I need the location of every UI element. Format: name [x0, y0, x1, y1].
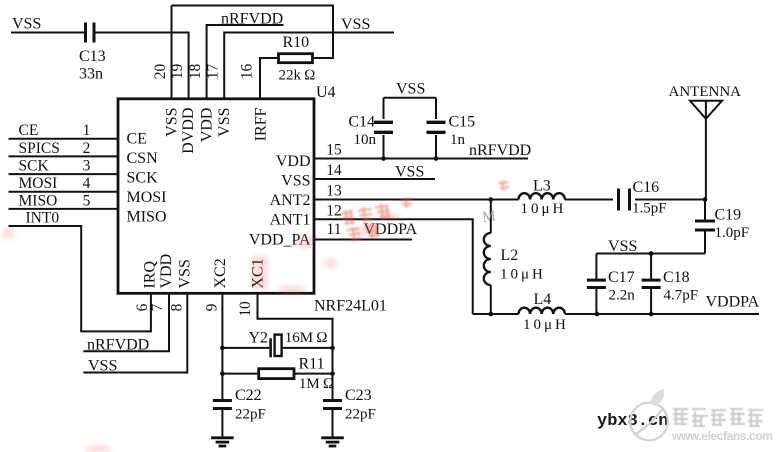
- svg-text:ANT1: ANT1: [270, 211, 311, 228]
- svg-text:VSS: VSS: [88, 357, 117, 374]
- wire pin 7 VDD to nRFVDD: [83, 293, 169, 351]
- svg-text:DVDD: DVDD: [180, 108, 197, 154]
- wire C13 to pin 19 DVDD: [96, 33, 189, 99]
- svg-text:1: 1: [83, 122, 91, 139]
- ground (C22): [211, 436, 234, 439]
- resistor R11: [259, 369, 294, 379]
- inductor L2: [490, 200, 492, 234]
- wire Y2 to XC1: [283, 347, 333, 349]
- svg-text:VSS: VSS: [216, 108, 233, 137]
- svg-text:1.5pF: 1.5pF: [632, 201, 667, 217]
- wire pin 15 VDD to nRFVDD: [314, 158, 528, 160]
- wire MOSI to pin 4: [9, 191, 119, 193]
- svg-text:ANT2: ANT2: [270, 192, 311, 209]
- capacitor C22: [213, 399, 232, 402]
- svg-text:C16: C16: [633, 179, 660, 196]
- junction C18 bottom: [649, 312, 654, 317]
- svg-text:14: 14: [326, 162, 342, 179]
- IC U4 NRF24L01 body: [118, 99, 314, 293]
- junction C18 top: [649, 251, 654, 256]
- svg-text:VDD: VDD: [199, 108, 216, 143]
- svg-text:CE: CE: [127, 131, 147, 148]
- crystal Y2: [269, 338, 272, 357]
- junction C17 bottom: [595, 312, 600, 317]
- wire VSS rail above C14 C15: [384, 97, 437, 99]
- svg-text:VDDPA: VDDPA: [706, 294, 760, 311]
- svg-text:C15: C15: [449, 114, 476, 131]
- svg-text:MISO: MISO: [127, 209, 167, 226]
- svg-text:SPICS: SPICS: [19, 140, 60, 157]
- svg-text:VSS: VSS: [164, 108, 181, 137]
- svg-text:XC2: XC2: [212, 258, 229, 288]
- svg-text:MOSI: MOSI: [19, 175, 58, 192]
- svg-text:C19: C19: [715, 207, 742, 224]
- wire pin 20 VSS riser: [171, 6, 173, 99]
- svg-text:MISO: MISO: [19, 192, 58, 209]
- capacitor C15: [435, 98, 437, 119]
- wire pin 9 XC2 down: [221, 293, 223, 400]
- junction XC2-Y2: [220, 346, 225, 351]
- svg-text:VSS: VSS: [177, 259, 194, 288]
- svg-text:10μH: 10μH: [521, 201, 567, 217]
- svg-text:1n: 1n: [450, 132, 466, 148]
- svg-text:R10: R10: [283, 34, 310, 51]
- svg-text:M: M: [481, 208, 496, 226]
- svg-text:12: 12: [326, 202, 342, 219]
- junction C15 bottom: [434, 156, 439, 161]
- svg-text:16M Ω: 16M Ω: [285, 330, 328, 346]
- wire pin 12 ANT1 down: [314, 219, 473, 314]
- capacitor C14: [383, 98, 385, 119]
- svg-text:CE: CE: [19, 122, 39, 139]
- svg-text:4: 4: [83, 175, 91, 192]
- svg-text:13: 13: [326, 183, 342, 200]
- svg-text:ANTENNA: ANTENNA: [669, 84, 742, 100]
- svg-text:9: 9: [203, 303, 220, 311]
- svg-text:11: 11: [327, 221, 342, 238]
- svg-text:L4: L4: [534, 291, 552, 308]
- svg-text:2.2n: 2.2n: [609, 288, 636, 304]
- junction XC2-R11: [220, 371, 225, 376]
- wire pin 13 ANT2 to L3: [314, 199, 519, 201]
- svg-text:U4: U4: [316, 84, 336, 101]
- svg-text:16: 16: [239, 64, 256, 80]
- wire C16 to antenna node: [635, 199, 705, 201]
- wire top VSS rail to R10: [172, 6, 334, 59]
- wire L3 to C16: [565, 199, 613, 201]
- svg-text:VDD: VDD: [158, 254, 175, 289]
- watermark red stamp fragments: [338, 180, 513, 243]
- wire MISO to pin 5: [9, 208, 119, 210]
- svg-text:VDD: VDD: [276, 153, 311, 170]
- wire PA output rail: [473, 313, 519, 315]
- inductor L4: [519, 308, 565, 314]
- svg-text:33n: 33n: [79, 66, 103, 83]
- resistor R10: [279, 54, 313, 63]
- svg-text:10μH: 10μH: [523, 317, 569, 333]
- wire SPICS to pin 2: [9, 155, 119, 157]
- svg-text:VSS: VSS: [395, 164, 424, 181]
- svg-text:IRFF: IRFF: [253, 107, 270, 141]
- wire pin 11 VDD_PA: [314, 239, 412, 241]
- watermark CJK text: [673, 409, 763, 426]
- svg-text:INT0: INT0: [26, 209, 60, 226]
- capacitor C23: [323, 399, 342, 402]
- svg-text:10n: 10n: [354, 132, 377, 148]
- svg-text:8: 8: [169, 303, 186, 311]
- svg-text:10μH: 10μH: [500, 267, 546, 283]
- svg-text:10: 10: [237, 301, 254, 317]
- junction L2 bottom: [488, 312, 493, 317]
- antenna symbol: [690, 101, 722, 119]
- svg-text:C14: C14: [348, 114, 375, 131]
- svg-text:C17: C17: [608, 269, 635, 286]
- wire pin 8 VSS to VSS: [83, 293, 187, 372]
- wire R11 to XC1: [294, 373, 333, 375]
- wire pin 10 XC1 down: [258, 293, 333, 401]
- wire CE to pin 1: [9, 138, 119, 140]
- svg-text:VSS: VSS: [608, 238, 637, 255]
- svg-text:1.0pF: 1.0pF: [715, 225, 750, 241]
- junction C14 bottom: [381, 156, 386, 161]
- wire pin 16 IRFF riser: [260, 58, 279, 99]
- svg-text:VSS: VSS: [396, 81, 425, 98]
- svg-text:nRFVDD: nRFVDD: [469, 142, 531, 159]
- watermark elecfans logo: [630, 389, 668, 440]
- svg-text:2: 2: [83, 140, 91, 157]
- wire VSS rail (C17/C18/C19): [596, 253, 705, 255]
- wire VSS rail to C13: [11, 32, 84, 34]
- svg-text:C23: C23: [345, 387, 372, 404]
- svg-text:22pF: 22pF: [345, 407, 376, 423]
- svg-text:L3: L3: [533, 178, 551, 195]
- ground (C23): [321, 436, 344, 439]
- capacitor C19: [704, 200, 706, 221]
- capacitor C17: [595, 254, 597, 280]
- wire INT0 to pin 6 IRQ: [9, 226, 151, 331]
- svg-text:18: 18: [187, 64, 204, 80]
- junction Y2-XC1: [330, 346, 335, 351]
- junction antenna node: [703, 197, 708, 202]
- svg-text:C18: C18: [663, 269, 690, 286]
- svg-text:VSS: VSS: [341, 16, 370, 33]
- svg-text:7: 7: [149, 303, 166, 311]
- svg-text:L2: L2: [501, 247, 519, 264]
- inductor L3: [519, 193, 565, 199]
- wire pin 17 VSS to VSS label: [224, 33, 394, 99]
- wire pin 14 VSS: [314, 178, 435, 180]
- svg-text:5: 5: [83, 192, 91, 209]
- svg-text:17: 17: [205, 64, 222, 80]
- svg-text:CSN: CSN: [127, 150, 159, 167]
- wire XC2 to Y2: [222, 347, 269, 349]
- svg-text:VSS: VSS: [281, 173, 310, 190]
- svg-text:SCK: SCK: [19, 158, 50, 175]
- svg-text:15: 15: [326, 142, 342, 159]
- svg-text:NRF24L01: NRF24L01: [314, 298, 387, 315]
- wire SCK to pin 3: [9, 173, 119, 175]
- svg-text:Y2: Y2: [248, 330, 268, 347]
- junction R11-XC1: [330, 371, 335, 376]
- svg-text:IRQ: IRQ: [142, 261, 159, 289]
- capacitor C18: [650, 254, 652, 280]
- wire pin 18 VDD to nRFVDD: [207, 25, 284, 99]
- svg-text:1M Ω: 1M Ω: [299, 376, 334, 392]
- svg-text:C22: C22: [235, 387, 262, 404]
- svg-text:R11: R11: [299, 356, 325, 373]
- svg-text:4.7pF: 4.7pF: [664, 288, 699, 304]
- svg-text:SCK: SCK: [127, 170, 159, 187]
- svg-text:www.elecfans.com: www.elecfans.com: [671, 429, 773, 443]
- svg-text:nRFVDD: nRFVDD: [87, 336, 149, 353]
- svg-text:MOSI: MOSI: [127, 189, 167, 206]
- svg-text:20: 20: [152, 64, 169, 80]
- svg-text:C13: C13: [79, 48, 106, 65]
- wire XC2 to R11: [222, 373, 258, 375]
- capacitor C16: [617, 189, 620, 211]
- svg-text:VSS: VSS: [12, 16, 41, 33]
- svg-text:22pF: 22pF: [235, 407, 266, 423]
- svg-text:22k Ω: 22k Ω: [279, 68, 316, 84]
- svg-text:19: 19: [169, 64, 186, 80]
- capacitor C13: [84, 23, 87, 43]
- junction L2 top: [488, 197, 493, 202]
- svg-text:3: 3: [83, 158, 91, 175]
